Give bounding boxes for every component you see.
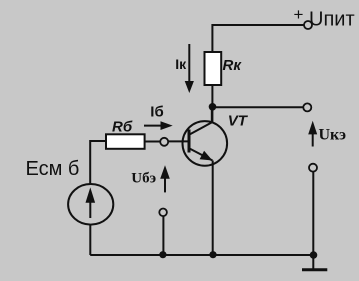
svg-text:Rб: Rб xyxy=(112,119,133,136)
wire: base reference terminal to bottom rail xyxy=(162,216,164,255)
current arrow Ib xyxy=(144,121,173,130)
terminal: base input xyxy=(160,138,168,146)
terminal: base reference xyxy=(159,209,167,217)
resistor Rb xyxy=(106,134,145,149)
wire: emitter lead to bottom rail xyxy=(212,161,214,256)
svg-text:+: + xyxy=(294,5,304,24)
svg-text:Rк: Rк xyxy=(223,57,243,74)
node: rail junction base reference xyxy=(159,251,166,258)
wire: source to bottom rail xyxy=(89,225,91,255)
wire: +Upit top rail xyxy=(212,25,303,53)
wire: base terminal to VT base xyxy=(168,140,189,142)
svg-text:Uкэ: Uкэ xyxy=(319,127,347,144)
wire: Esm b to Rb corner xyxy=(90,141,106,184)
source Esm b xyxy=(68,184,113,225)
wire: bottom rail xyxy=(90,254,313,256)
svg-text:Iб: Iб xyxy=(150,104,163,121)
node: ground junction xyxy=(310,251,318,259)
wire: Rk to collector node xyxy=(211,85,213,122)
current arrow Ik xyxy=(185,44,194,93)
resistor Rk xyxy=(205,52,222,85)
svg-text:Uпит: Uпит xyxy=(309,9,355,31)
wire: emitter output terminal to ground xyxy=(312,172,314,269)
terminal +Upit xyxy=(304,21,312,29)
svg-text:Есм б: Есм б xyxy=(26,158,80,180)
voltage arrow Uke xyxy=(308,121,317,147)
svg-text:Iк: Iк xyxy=(175,56,187,72)
wire: collector node to output terminal xyxy=(213,106,304,108)
svg-text:Uбэ: Uбэ xyxy=(131,171,156,187)
node: rail junction emitter xyxy=(209,251,216,258)
terminal: collector output xyxy=(303,103,311,111)
ground xyxy=(302,268,327,271)
voltage arrow Ube xyxy=(160,165,170,192)
transistor VT xyxy=(183,121,228,166)
wire: Rb to base terminal xyxy=(145,141,160,143)
wire: collector lead xyxy=(211,107,213,123)
node: collector junction xyxy=(209,103,217,111)
svg-text:VT: VT xyxy=(228,113,249,130)
terminal: emitter output xyxy=(309,164,317,172)
